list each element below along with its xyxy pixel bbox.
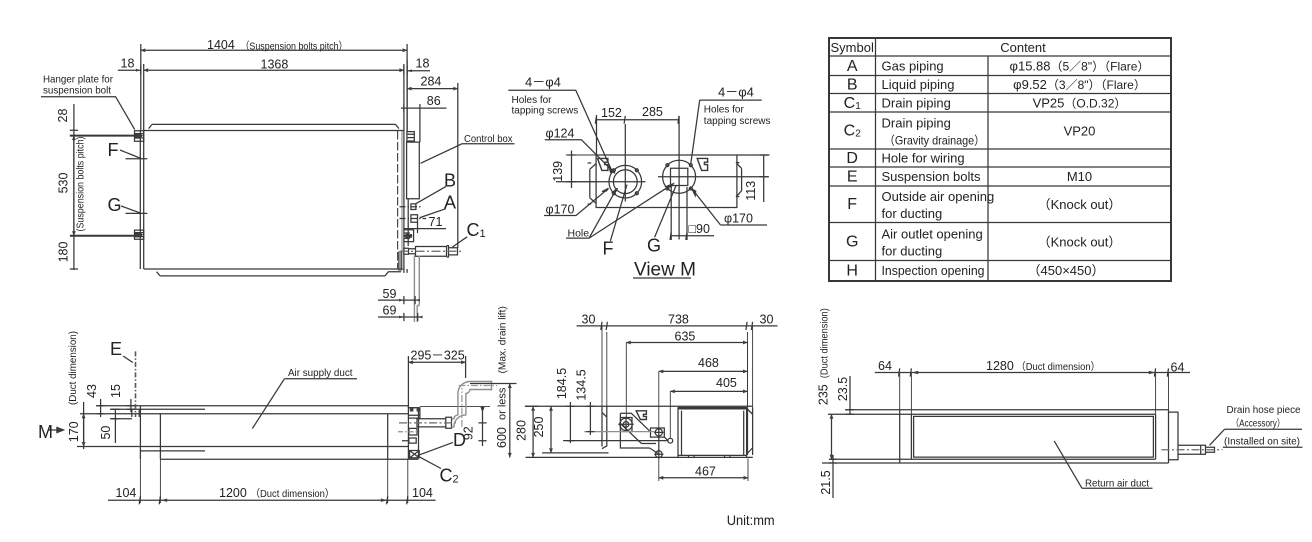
svg-text:Content: Content xyxy=(1000,40,1046,55)
svg-text:104: 104 xyxy=(116,486,137,500)
label phi170 left underline + leader xyxy=(544,190,607,216)
pipe B xyxy=(411,204,416,210)
svg-text:F: F xyxy=(108,140,119,160)
dim 250 xyxy=(550,406,552,453)
roller circle xyxy=(668,438,673,443)
rear body left edge xyxy=(899,410,901,463)
center line horizontal F xyxy=(556,181,646,183)
svg-text:235: 235 xyxy=(817,384,831,405)
dim 280 top ref tick xyxy=(525,405,538,407)
svg-text:Hole: Hole xyxy=(568,227,590,239)
bolt4 circle xyxy=(655,451,662,458)
dim 69 xyxy=(378,313,420,321)
svg-text:（450×450）: （450×450） xyxy=(1028,263,1105,278)
svg-text:φ170: φ170 xyxy=(546,203,575,217)
svg-text:28: 28 xyxy=(56,109,70,123)
pipe C1 cylinder xyxy=(404,248,409,254)
front bottom line xyxy=(160,458,418,460)
level line 184.5 xyxy=(563,440,668,442)
svg-text:E: E xyxy=(110,339,122,359)
dim 104-1200-104 xyxy=(108,496,436,504)
label Hole underline + leaders xyxy=(566,185,672,238)
svg-text:134.5: 134.5 xyxy=(575,369,589,400)
svg-text:180: 180 xyxy=(57,242,71,263)
dim 170 duct xyxy=(83,402,85,449)
svg-text:1368: 1368 xyxy=(261,58,289,72)
return air duct label underline + leader xyxy=(1054,441,1152,488)
dim 134.5 xyxy=(586,402,594,435)
hanger plate label underline + leader xyxy=(41,97,135,130)
dim 295-325 xyxy=(408,361,465,363)
dim 28 ticks xyxy=(70,130,78,135)
svg-text:for ducting: for ducting xyxy=(882,244,943,259)
svg-text:（Knock out）: （Knock out） xyxy=(1038,235,1122,250)
svg-text:D: D xyxy=(453,430,466,450)
top flange line with bevels xyxy=(149,124,399,128)
panel top ext right xyxy=(737,154,770,156)
leader C1 xyxy=(452,237,467,247)
leader A xyxy=(420,209,446,218)
dim 530 xyxy=(73,136,75,236)
svg-text:Symbol: Symbol xyxy=(831,40,874,55)
svg-text:(Max. drain lift): (Max. drain lift) xyxy=(498,306,509,373)
dim 23.5 xyxy=(846,376,854,414)
G opening tick xyxy=(126,212,148,214)
svg-text:tapping screws: tapping screws xyxy=(512,105,579,116)
leader D xyxy=(419,442,453,455)
drain center line xyxy=(399,422,456,424)
svg-text:View M: View M xyxy=(634,260,696,281)
leader G xyxy=(655,185,677,237)
suspension bolt E (dash-dot) xyxy=(135,351,137,417)
bridge line to side view xyxy=(420,405,490,407)
gray level line 134.5 xyxy=(584,431,655,433)
step to small roller xyxy=(620,424,668,454)
bottom knockout bracket with cross xyxy=(410,451,420,458)
svg-text:30: 30 xyxy=(582,313,596,327)
center line vertical F xyxy=(624,124,626,202)
bolt line left bottom (thick) xyxy=(70,235,136,237)
svg-text:φ15.88（5／8"）（Flare）: φ15.88（5／8"）（Flare） xyxy=(1010,59,1150,74)
svg-text:G: G xyxy=(846,234,858,251)
inner edge line left xyxy=(139,131,141,270)
dim 71 xyxy=(404,223,446,234)
svg-text:tapping screws: tapping screws xyxy=(704,116,771,127)
M view arrow xyxy=(48,429,60,431)
svg-text:1404: 1404 xyxy=(207,38,235,52)
svg-text:Outside air opening: Outside air opening xyxy=(882,189,995,204)
svg-text:285: 285 xyxy=(642,105,663,119)
rear body right edge xyxy=(1168,410,1170,463)
drain elbow and riser (gray) xyxy=(452,382,492,419)
svg-text:VP20: VP20 xyxy=(1064,124,1096,139)
pipe clip bracket xyxy=(404,230,414,242)
table row lines xyxy=(829,56,1171,261)
svg-text:4－φ4: 4－φ4 xyxy=(718,84,754,99)
svg-text:50: 50 xyxy=(99,426,113,440)
suspension bolt line right xyxy=(406,60,408,132)
table outer border xyxy=(829,38,1171,281)
svg-text:E: E xyxy=(847,168,858,185)
svg-text:4－φ4: 4－φ4 xyxy=(525,75,561,90)
svg-text:18: 18 xyxy=(121,57,135,71)
svg-text:（Gravity drainage）: （Gravity drainage） xyxy=(884,134,985,148)
bracket plate xyxy=(620,413,649,448)
panel top edge extension xyxy=(566,155,596,182)
svg-text:B: B xyxy=(847,76,858,93)
svg-text:Air supply duct: Air supply duct xyxy=(288,367,353,379)
pipe A xyxy=(411,215,418,222)
dim 184.5 xyxy=(566,402,574,443)
svg-text:Hole for wiring: Hole for wiring xyxy=(882,151,965,166)
svg-text:18: 18 xyxy=(416,57,430,71)
svg-text:Hanger plate for: Hanger plate for xyxy=(43,74,114,85)
rear body top xyxy=(845,409,1169,411)
svg-text:530: 530 xyxy=(57,173,71,194)
duct left edge xyxy=(159,414,161,460)
hanger plate left top xyxy=(135,131,144,141)
bolt2 circle xyxy=(655,429,662,436)
piping panel xyxy=(408,408,418,458)
svg-text:VP25（O.D.32）: VP25（O.D.32） xyxy=(1033,96,1127,111)
svg-text:1200（Duct dimension）: 1200（Duct dimension） xyxy=(219,486,334,500)
svg-text:(Installed on site): (Installed on site) xyxy=(1224,437,1300,448)
dim 43 xyxy=(97,399,105,417)
left duct flange xyxy=(602,406,607,448)
svg-text:Suspension bolts: Suspension bolts xyxy=(882,169,982,184)
inner wall line right xyxy=(401,131,403,269)
view M panel xyxy=(596,155,737,208)
dim 21.5 xyxy=(829,455,837,498)
svg-text:15: 15 xyxy=(109,384,123,398)
svg-text:468: 468 xyxy=(698,356,719,370)
control box xyxy=(407,142,420,199)
extension lines to bottom dim xyxy=(140,459,407,503)
svg-text:600: 600 xyxy=(495,427,509,448)
dim 1368 line xyxy=(144,69,404,71)
pump housing rect xyxy=(651,428,665,437)
dim 180 ticks xyxy=(70,236,78,269)
knockout clip symbol right xyxy=(697,158,707,170)
body left edge xyxy=(139,406,141,459)
svg-text:Holes for: Holes for xyxy=(704,105,745,116)
bottom right corner bracket xyxy=(388,252,407,273)
svg-text:Unit:mm: Unit:mm xyxy=(727,512,775,528)
bolt line left top (thick) xyxy=(70,135,136,137)
dim 468 xyxy=(659,370,748,372)
dim 1404 line xyxy=(141,49,407,51)
rear body bottom xyxy=(822,462,1169,464)
knockout clip symbol left xyxy=(598,158,608,170)
table column lines xyxy=(876,38,989,281)
D hole fitting xyxy=(402,438,416,443)
dim 113 xyxy=(760,155,768,202)
svg-text:21.5: 21.5 xyxy=(819,470,833,494)
svg-text:64: 64 xyxy=(878,359,892,373)
dim 59 xyxy=(378,296,417,304)
drain pipe going down (gray) xyxy=(414,256,419,323)
left flange xyxy=(588,163,597,204)
front view top line xyxy=(96,405,408,407)
box feet xyxy=(689,455,731,458)
bottom flange line with bevels xyxy=(157,272,389,276)
drain hose piece xyxy=(1178,445,1215,454)
svg-text:G: G xyxy=(108,195,122,215)
svg-text:(Suspension bolts pitch): (Suspension bolts pitch) xyxy=(75,137,87,232)
center line horizontal G xyxy=(658,176,769,178)
svg-text:φ9.52（3／8"）（Flare）: φ9.52（3／8"）（Flare） xyxy=(1013,77,1146,92)
riser center dash xyxy=(459,386,498,428)
svg-text:284: 284 xyxy=(421,74,442,88)
tapping screw dots left circle xyxy=(612,169,615,172)
circle F outer xyxy=(609,165,642,198)
side view bottom line xyxy=(526,456,753,458)
svg-text:M: M xyxy=(38,422,53,442)
return air box top (thick) xyxy=(678,407,747,410)
leader C2 xyxy=(417,456,441,469)
svg-text:for ducting: for ducting xyxy=(882,206,943,221)
svg-text:（Knock out）: （Knock out） xyxy=(1038,197,1122,212)
svg-text:H: H xyxy=(846,263,858,280)
bolt1 housing xyxy=(621,418,633,432)
dim 15 xyxy=(127,399,135,412)
svg-text:635: 635 xyxy=(675,330,696,344)
label phi124 underline + leader xyxy=(545,140,615,174)
svg-text:43: 43 xyxy=(85,384,99,398)
return air box inner xyxy=(678,411,747,456)
dim 284 xyxy=(407,88,458,90)
svg-text:φ170: φ170 xyxy=(724,212,753,226)
svg-text:suspension bolt: suspension bolt xyxy=(43,85,111,96)
svg-text:467: 467 xyxy=(695,464,716,478)
square 90 dim xyxy=(670,187,714,240)
hanger plate left bottom xyxy=(135,230,144,239)
svg-text:170: 170 xyxy=(67,421,81,442)
rear duct top xyxy=(828,413,1156,415)
svg-text:(Duct dimension): (Duct dimension) xyxy=(67,331,79,405)
right flange xyxy=(747,407,753,455)
svg-text:（Suspension bolts pitch）: （Suspension bolts pitch） xyxy=(241,41,348,53)
hanger rail line xyxy=(110,408,205,410)
svg-text:Inspection opening: Inspection opening xyxy=(882,263,985,278)
square 90 xyxy=(671,168,688,185)
leader G xyxy=(121,206,141,213)
svg-text:139: 139 xyxy=(551,161,565,182)
svg-text:405: 405 xyxy=(716,376,737,390)
dim 30-738-30 xyxy=(577,322,778,330)
center line vertical G xyxy=(678,116,680,240)
svg-text:Control box: Control box xyxy=(464,134,513,145)
dim 235 xyxy=(831,414,833,459)
svg-text:64: 64 xyxy=(1171,361,1185,375)
right flange xyxy=(736,163,742,197)
svg-text:1280（Duct dimension）: 1280（Duct dimension） xyxy=(986,359,1100,373)
left dim extension line xyxy=(73,104,75,270)
svg-text:152: 152 xyxy=(601,106,622,120)
piping panel edge line xyxy=(408,199,415,254)
dim 18 right xyxy=(404,66,430,75)
gravity drain fitting xyxy=(409,428,417,435)
label 4-phi4 left underline + leader xyxy=(508,90,611,170)
C2 drain stub pipe xyxy=(417,417,452,428)
svg-text:184.5: 184.5 xyxy=(555,368,569,399)
hose center line xyxy=(1162,449,1223,451)
svg-text:71: 71 xyxy=(429,215,443,229)
dim 635 xyxy=(626,342,747,344)
dim 467 xyxy=(659,477,748,479)
svg-text:□90: □90 xyxy=(689,222,711,236)
svg-text:（Accessory）: （Accessory） xyxy=(1231,418,1285,430)
air supply duct label leader xyxy=(252,379,357,429)
dim 139 xyxy=(567,151,575,189)
tapping screw dots right circle xyxy=(666,164,669,167)
dim 18 left xyxy=(118,66,141,75)
side view top line xyxy=(526,405,753,407)
hanger rail bottom segment xyxy=(110,418,132,420)
svg-text:Air outlet opening: Air outlet opening xyxy=(882,227,983,242)
return air box outer xyxy=(678,407,747,458)
unit body outline (plan view) xyxy=(144,131,404,270)
svg-text:M10: M10 xyxy=(1067,169,1092,184)
svg-text:280: 280 xyxy=(515,420,529,441)
svg-text:86: 86 xyxy=(427,94,441,108)
leader F xyxy=(610,185,627,241)
svg-text:738: 738 xyxy=(668,313,689,327)
knockout clip symbol xyxy=(636,411,646,420)
svg-text:59: 59 xyxy=(383,287,397,301)
svg-text:or less: or less xyxy=(497,387,509,420)
leader B xyxy=(415,187,446,205)
dim 86 xyxy=(401,104,447,142)
duct right edge xyxy=(387,414,389,460)
dim 92 xyxy=(478,406,486,446)
View M underline xyxy=(633,277,691,279)
drain pipe end cap xyxy=(491,381,493,391)
svg-text:Return air duct: Return air duct xyxy=(1085,478,1149,489)
rear duct rect xyxy=(911,414,1155,459)
svg-text:G: G xyxy=(647,236,661,256)
duct top line xyxy=(80,413,408,415)
duct bottom line xyxy=(77,446,408,448)
control box leader xyxy=(421,144,515,164)
svg-text:Drain piping: Drain piping xyxy=(882,116,951,131)
svg-text:Liquid piping: Liquid piping xyxy=(882,77,955,92)
bolt1 circle xyxy=(620,418,632,430)
label 4-phi4 right underline + leader xyxy=(691,100,762,163)
dim 280 xyxy=(532,406,534,457)
svg-text:(Duct dimension): (Duct dimension) xyxy=(819,308,831,378)
svg-text:φ124: φ124 xyxy=(546,126,575,140)
svg-text:30: 30 xyxy=(760,313,774,327)
rear duct bottom xyxy=(830,458,1156,460)
svg-text:B: B xyxy=(444,171,456,191)
dim 600 or less xyxy=(470,383,517,385)
svg-text:23.5: 23.5 xyxy=(836,377,850,401)
svg-text:250: 250 xyxy=(532,417,546,438)
dim 64-1280-64 xyxy=(875,368,1190,376)
leader F xyxy=(120,150,141,159)
svg-text:104: 104 xyxy=(412,486,433,500)
hanger plate right top xyxy=(407,132,414,141)
dim 152+285 line xyxy=(595,115,679,155)
drain block xyxy=(1169,412,1179,460)
svg-text:F: F xyxy=(603,239,614,259)
section line M (gray dashed) xyxy=(397,131,399,269)
svg-text:113: 113 xyxy=(744,181,758,201)
drain hose label underline + leader xyxy=(1210,429,1303,445)
lower rail segment xyxy=(140,450,205,452)
svg-text:295－325: 295－325 xyxy=(411,349,465,363)
label E + leader xyxy=(123,356,133,363)
svg-text:A: A xyxy=(847,58,858,75)
F opening tick xyxy=(126,158,148,160)
svg-text:69: 69 xyxy=(383,304,397,318)
circle F inner (phi124) xyxy=(613,170,637,194)
svg-text:D: D xyxy=(846,150,858,167)
body right edge xyxy=(407,406,409,459)
svg-text:A: A xyxy=(444,193,456,213)
svg-text:Gas piping: Gas piping xyxy=(882,59,944,74)
svg-text:Drain hose piece: Drain hose piece xyxy=(1227,405,1301,416)
circle G outer xyxy=(663,160,696,193)
rear duct inner rect xyxy=(914,416,1154,457)
dim 50 xyxy=(111,409,119,443)
E bolt bracket xyxy=(132,409,139,417)
svg-text:Drain piping: Drain piping xyxy=(882,96,951,111)
top hanger bracket right xyxy=(409,408,420,418)
label phi170 right underline + leader xyxy=(694,191,768,225)
dim 405 xyxy=(670,390,747,392)
level line 250 xyxy=(542,452,608,454)
svg-text:F: F xyxy=(847,196,857,213)
